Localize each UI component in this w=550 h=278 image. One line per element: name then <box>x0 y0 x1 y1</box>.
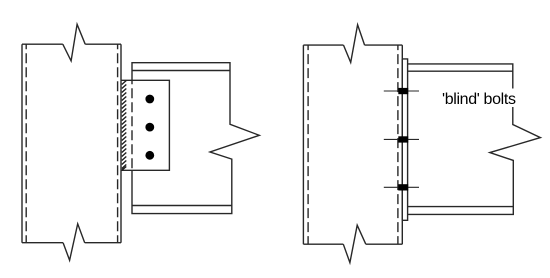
right beam top flange underside <box>408 70 513 72</box>
blind bolt 2 tick line <box>384 138 419 140</box>
end plate left figure <box>121 80 169 170</box>
blind bolt 3 tick line <box>384 186 419 188</box>
bolt 2 <box>145 123 154 132</box>
right column outline <box>303 45 402 244</box>
end plate right figure <box>402 59 407 220</box>
left beam outline with break <box>132 63 259 214</box>
right column hidden flange line left <box>307 45 309 244</box>
blind bolt 3 <box>398 184 408 190</box>
bolt 3 <box>145 151 154 160</box>
blind bolt 2 <box>398 136 408 142</box>
left beam top flange underside <box>132 70 230 72</box>
left column hidden flange line left <box>25 44 27 243</box>
right beam bottom flange top line <box>408 206 514 208</box>
label mask <box>438 89 517 108</box>
right column hidden flange line right <box>397 45 399 244</box>
left column outline <box>22 44 121 243</box>
blind bolt 1 tick line <box>384 90 419 92</box>
left column hidden flange line right <box>117 44 119 243</box>
right beam outline with break <box>408 64 541 215</box>
left column bottom break <box>63 224 85 260</box>
left column top break <box>63 24 85 61</box>
weld hatching <box>122 81 127 171</box>
svg-text:'blind' bolts: 'blind' bolts <box>442 91 516 108</box>
blind bolt 1 <box>398 88 408 94</box>
right column bottom break <box>343 225 366 262</box>
left beam hidden end line behind plate <box>131 80 133 170</box>
left beam bottom flange top line <box>132 205 232 207</box>
right column top break <box>344 25 365 63</box>
bolt 1 <box>145 95 154 104</box>
